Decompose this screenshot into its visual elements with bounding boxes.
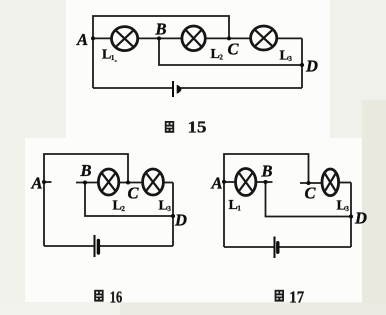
node D dot <box>171 214 175 218</box>
wire: bottom with battery gap <box>44 245 94 247</box>
wire: inner bypass B to D <box>266 182 352 217</box>
caption 图 16 <box>94 288 122 307</box>
battery cell <box>173 81 181 97</box>
lamp L3 <box>322 169 339 196</box>
node B dot <box>157 36 161 40</box>
svg-text:D: D <box>354 209 367 228</box>
lamp L3 <box>251 26 277 50</box>
svg-text:B: B <box>155 20 167 39</box>
svg-text:17: 17 <box>289 288 304 307</box>
svg-text:C: C <box>228 40 240 59</box>
node A dot <box>91 36 95 40</box>
wire: right vertical to D and bottom <box>301 38 303 88</box>
node B dot <box>264 180 268 184</box>
node C dot <box>126 181 130 185</box>
svg-text:D: D <box>174 211 187 230</box>
node D dot <box>349 214 353 218</box>
caption 图 15 <box>165 118 207 137</box>
node D dot <box>300 63 304 67</box>
wire: A stub <box>44 181 52 183</box>
bottom scan band <box>120 303 386 315</box>
lamp L2 <box>98 169 118 195</box>
lamp L1 <box>236 169 256 196</box>
svg-text:C: C <box>305 184 317 203</box>
wire: outer left/top with C drop <box>224 154 309 247</box>
svg-text:15: 15 <box>188 118 207 137</box>
battery cell <box>95 235 99 257</box>
right margin strip <box>362 100 386 315</box>
white panel top <box>66 0 330 138</box>
wire: main branch A to lamp1 <box>224 181 236 183</box>
node A dot <box>42 180 46 184</box>
svg-text:D: D <box>305 57 318 76</box>
wire: bottom with battery gap <box>224 246 274 248</box>
svg-text:A: A <box>31 174 43 193</box>
svg-text:16: 16 <box>110 288 123 307</box>
lamp L2 <box>182 26 205 51</box>
stray scan speck <box>115 60 117 62</box>
wire: inner bypass B to D <box>85 183 173 217</box>
wire: main branch open end to lamp <box>76 182 98 184</box>
svg-text:B: B <box>80 161 92 180</box>
wire: left vertical A column <box>93 16 229 88</box>
wire: C stub <box>300 182 322 184</box>
wire: lamp2 to right corner <box>339 182 352 184</box>
wire: outer left/top with C drop <box>44 154 128 246</box>
lamp L3 <box>143 169 164 195</box>
wire: right vertical <box>350 183 352 248</box>
svg-text:C: C <box>128 184 140 203</box>
wire: main branch segments <box>93 37 112 39</box>
white panel bottom <box>25 138 362 302</box>
node C dot <box>307 181 311 185</box>
wire: inner bypass B to D <box>159 38 302 65</box>
node B dot <box>83 181 87 185</box>
svg-text:A: A <box>211 174 223 193</box>
svg-text:A: A <box>76 30 88 49</box>
node C dot <box>227 36 231 40</box>
lamp L1 <box>112 27 138 51</box>
wire: right vertical <box>172 183 174 247</box>
caption 图 17 <box>275 288 304 307</box>
node A dot <box>222 180 226 184</box>
battery cell <box>275 237 278 259</box>
wire: lamp1 to B stub end <box>256 181 273 183</box>
svg-text:B: B <box>261 162 273 181</box>
wire: bottom with battery gap <box>93 87 172 89</box>
